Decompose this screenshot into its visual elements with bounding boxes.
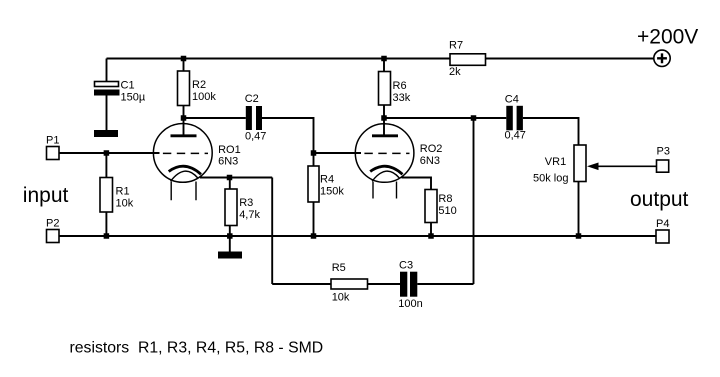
resistor R2 (178, 59, 217, 119)
wire C3 to feedback right vertical (417, 283, 473, 285)
resistor R4 (308, 153, 344, 236)
svg-text:50k log: 50k log (533, 173, 568, 185)
svg-text:RO2: RO2 (420, 143, 443, 155)
svg-text:resistors R1, R3, R4, R5, R8: resistors R1, R3, R4, R5, R8 - SMD (70, 340, 324, 357)
svg-text:6N3: 6N3 (420, 155, 440, 167)
junction RO2 anode node (381, 115, 387, 121)
svg-text:510: 510 (438, 205, 456, 217)
wire RO1 anode node to C2 (184, 117, 246, 119)
wire P1 to RO1 grid (59, 152, 160, 154)
wire C4 to VR1 top (523, 118, 579, 145)
junction R4 bottom (311, 233, 317, 239)
resistor R3 (225, 178, 260, 237)
wire RO2 anode row to C4 (384, 117, 506, 119)
terminal P3 (657, 146, 670, 173)
svg-text:P3: P3 (657, 146, 670, 158)
svg-text:RO1: RO1 (218, 144, 241, 156)
resistor R7 (449, 39, 486, 78)
wire top +200V rail right segment (486, 58, 654, 60)
svg-text:R5: R5 (332, 262, 346, 274)
capacitor C1 (94, 59, 146, 131)
svg-text:33k: 33k (393, 92, 411, 104)
junction R6 top (381, 56, 387, 62)
svg-text:C1: C1 (121, 80, 135, 92)
junction R2 top (181, 56, 187, 62)
tube RO1 (153, 118, 240, 200)
wire top +200V rail left segment (107, 58, 451, 60)
junction R8 bottom (428, 233, 434, 239)
junction R3 bottom (227, 233, 233, 239)
svg-text:150k: 150k (320, 186, 344, 198)
junction R1 bottom (104, 233, 110, 239)
svg-text:10k: 10k (116, 197, 134, 209)
svg-text:R4: R4 (320, 174, 334, 186)
resistor R5 (331, 262, 368, 304)
svg-text:R8: R8 (438, 193, 452, 205)
wire R5 to C3 (368, 283, 401, 285)
wire bottom ground rail (59, 235, 656, 237)
ground below R3 (218, 236, 242, 259)
svg-text:0,47: 0,47 (245, 131, 266, 143)
svg-text:VR1: VR1 (545, 156, 566, 168)
svg-text:0,47: 0,47 (505, 130, 526, 142)
svg-text:P1: P1 (46, 135, 59, 147)
junction RO1 anode node (181, 115, 187, 121)
wire C2 to RO2 grid node (262, 118, 314, 153)
svg-text:R2: R2 (192, 79, 206, 91)
terminal P4 (656, 218, 669, 243)
ground below C1 (94, 130, 118, 137)
svg-text:P4: P4 (656, 218, 669, 230)
wire feedback left vertical (271, 178, 273, 285)
svg-text:P2: P2 (46, 218, 59, 230)
wire RO2 cathode to R8 (402, 178, 432, 190)
svg-text:R6: R6 (393, 80, 407, 92)
svg-text:R3: R3 (239, 197, 253, 209)
junction R1 top (104, 150, 110, 156)
terminal P1 (46, 135, 59, 160)
terminal +200V (637, 25, 698, 66)
svg-text:100n: 100n (398, 298, 422, 310)
junction VR1 bottom (576, 233, 582, 239)
svg-text:+200V: +200V (637, 25, 698, 48)
wire grid node to RO2 (314, 152, 362, 154)
resistor R6 (379, 59, 411, 119)
svg-text:R7: R7 (449, 39, 463, 51)
svg-text:4,7k: 4,7k (239, 209, 260, 221)
capacitor C2 (245, 93, 267, 142)
wire RO1 cathode to feedback corner (200, 177, 272, 179)
svg-text:6N3: 6N3 (218, 156, 238, 168)
svg-text:output: output (630, 188, 689, 211)
wire feedback bottom to R5 (272, 283, 331, 285)
potentiometer VR1 (533, 145, 586, 236)
svg-text:2k: 2k (449, 66, 461, 78)
tube RO2 (355, 118, 442, 199)
wire VR1 wiper to P3 (587, 163, 657, 171)
junction feedback to anode row (471, 115, 477, 121)
svg-text:C3: C3 (399, 259, 413, 271)
svg-text:C2: C2 (245, 93, 259, 105)
svg-text:10k: 10k (332, 292, 350, 304)
junction R4 top RO2 grid node (311, 150, 317, 156)
terminal P2 (46, 218, 59, 243)
wire feedback right vertical (473, 118, 475, 284)
svg-text:R1: R1 (116, 185, 130, 197)
svg-text:150µ: 150µ (121, 92, 146, 104)
capacitor C4 (505, 93, 526, 141)
junction R3 top (227, 175, 233, 181)
svg-text:100k: 100k (192, 91, 216, 103)
capacitor C3 (398, 259, 422, 310)
svg-text:C4: C4 (505, 93, 519, 105)
resistor R1 (100, 153, 134, 236)
resistor R8 (425, 190, 457, 237)
svg-text:input: input (23, 184, 69, 207)
